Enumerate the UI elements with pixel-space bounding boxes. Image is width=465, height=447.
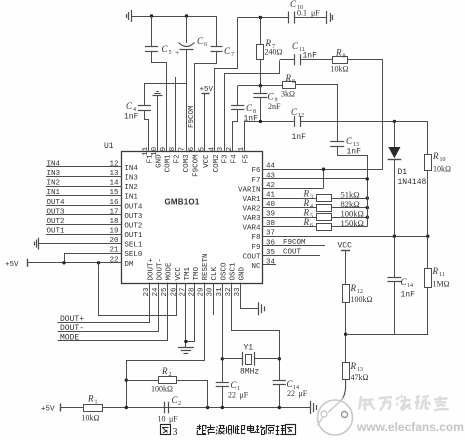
svg-text:F9: F9 bbox=[251, 244, 260, 252]
svg-text:VAR3: VAR3 bbox=[242, 215, 261, 223]
svg-text:2nF: 2nF bbox=[268, 102, 281, 111]
svg-text:OUT4: OUT4 bbox=[47, 199, 66, 207]
svg-text:F7: F7 bbox=[251, 177, 260, 185]
svg-text:+5V: +5V bbox=[5, 261, 19, 269]
svg-text:μF: μF bbox=[299, 389, 308, 398]
svg-text:+: + bbox=[175, 48, 179, 57]
svg-text:OSCO: OSCO bbox=[220, 262, 228, 281]
svg-text:R: R bbox=[432, 151, 439, 161]
svg-text:R: R bbox=[303, 208, 310, 218]
svg-text:C: C bbox=[346, 136, 353, 146]
svg-text:6: 6 bbox=[310, 223, 313, 229]
svg-text:5: 5 bbox=[310, 214, 313, 220]
svg-text:GND: GND bbox=[239, 266, 247, 280]
svg-text:OUT4: OUT4 bbox=[124, 203, 143, 211]
svg-text:F8: F8 bbox=[251, 234, 260, 242]
svg-text:+5V: +5V bbox=[41, 406, 55, 414]
svg-text:17: 17 bbox=[109, 208, 118, 216]
svg-text:34: 34 bbox=[266, 259, 276, 267]
svg-text:R: R bbox=[303, 189, 310, 199]
svg-text:R: R bbox=[161, 366, 168, 376]
svg-text:C: C bbox=[224, 46, 231, 56]
svg-text:OUT2: OUT2 bbox=[47, 218, 65, 226]
svg-text:51kΩ: 51kΩ bbox=[341, 190, 360, 200]
svg-text:82kΩ: 82kΩ bbox=[341, 199, 360, 209]
svg-text:COM2: COM2 bbox=[213, 154, 221, 172]
svg-text:F9COM: F9COM bbox=[193, 154, 201, 177]
svg-text:VAR2: VAR2 bbox=[242, 206, 260, 214]
svg-text:RESETN: RESETN bbox=[202, 253, 210, 280]
svg-text:VCC: VCC bbox=[203, 154, 211, 168]
svg-text:10kΩ: 10kΩ bbox=[82, 414, 100, 423]
svg-text:100kΩ: 100kΩ bbox=[151, 385, 173, 394]
svg-text:240Ω: 240Ω bbox=[265, 48, 283, 57]
svg-text:OUT3: OUT3 bbox=[47, 208, 66, 216]
svg-text:MODE: MODE bbox=[166, 262, 174, 281]
svg-text:GMB1O1: GMB1O1 bbox=[165, 198, 200, 207]
svg-text:5: 5 bbox=[169, 50, 172, 56]
svg-text:22: 22 bbox=[287, 389, 295, 398]
svg-text:C: C bbox=[292, 41, 299, 51]
svg-text:IN1: IN1 bbox=[124, 194, 138, 202]
svg-text:F5: F5 bbox=[243, 154, 251, 164]
svg-text:0.1: 0.1 bbox=[297, 9, 307, 18]
svg-text:27: 27 bbox=[179, 287, 187, 296]
svg-text:R: R bbox=[265, 38, 272, 48]
svg-text:SEL0: SEL0 bbox=[124, 251, 143, 259]
svg-text:47kΩ: 47kΩ bbox=[351, 373, 369, 382]
svg-text:5: 5 bbox=[199, 146, 207, 151]
svg-text:10kΩ: 10kΩ bbox=[331, 65, 349, 74]
svg-text:8MHz: 8MHz bbox=[240, 368, 259, 377]
svg-text:1nF: 1nF bbox=[401, 291, 416, 300]
svg-text:R: R bbox=[303, 217, 310, 227]
svg-text:43: 43 bbox=[266, 172, 276, 180]
svg-text:DOUT-: DOUT- bbox=[60, 324, 84, 333]
svg-text:IN3: IN3 bbox=[124, 175, 138, 183]
svg-text:2: 2 bbox=[169, 372, 172, 378]
svg-text:C: C bbox=[291, 107, 298, 117]
svg-text:4: 4 bbox=[310, 204, 313, 210]
svg-text:3: 3 bbox=[310, 195, 313, 201]
svg-text:MODE: MODE bbox=[60, 333, 79, 342]
svg-text:COUT: COUT bbox=[242, 254, 261, 262]
svg-text:OUT1: OUT1 bbox=[47, 228, 66, 236]
svg-text:1N4148: 1N4148 bbox=[398, 178, 427, 187]
svg-text:R: R bbox=[285, 73, 292, 83]
svg-text:1: 1 bbox=[95, 400, 98, 406]
svg-text:C: C bbox=[197, 36, 204, 46]
svg-text:IN4: IN4 bbox=[47, 161, 61, 169]
svg-text:DOUT-: DOUT- bbox=[157, 258, 165, 281]
svg-text:100kΩ: 100kΩ bbox=[351, 295, 373, 304]
svg-text:U1: U1 bbox=[104, 142, 114, 151]
svg-text:μF: μF bbox=[311, 9, 320, 18]
svg-text:9: 9 bbox=[343, 54, 346, 60]
svg-text:R: R bbox=[350, 361, 357, 371]
svg-text:VARIN: VARIN bbox=[238, 186, 261, 194]
svg-text:F6: F6 bbox=[251, 167, 261, 175]
svg-text:1nF: 1nF bbox=[292, 133, 307, 142]
svg-text:4: 4 bbox=[209, 146, 217, 151]
svg-text:μF: μF bbox=[169, 415, 178, 424]
svg-text:VAR4: VAR4 bbox=[242, 225, 261, 233]
svg-text:28: 28 bbox=[189, 287, 197, 296]
svg-text:COUT: COUT bbox=[283, 249, 302, 257]
svg-text:R: R bbox=[87, 394, 94, 404]
svg-text:OSC1: OSC1 bbox=[229, 262, 237, 281]
svg-text:1nF: 1nF bbox=[347, 148, 362, 157]
svg-text:2: 2 bbox=[178, 401, 181, 407]
svg-text:VAR1: VAR1 bbox=[242, 196, 261, 204]
svg-text:R: R bbox=[335, 48, 342, 58]
svg-text:DOUT+: DOUT+ bbox=[148, 257, 156, 280]
svg-text:VCC: VCC bbox=[175, 266, 183, 280]
svg-text:100kΩ: 100kΩ bbox=[341, 209, 364, 219]
svg-text:3: 3 bbox=[217, 146, 225, 151]
svg-text:36: 36 bbox=[266, 239, 276, 247]
svg-text:DOUT+: DOUT+ bbox=[60, 315, 84, 324]
svg-text:VCC: VCC bbox=[338, 242, 353, 251]
svg-text:10: 10 bbox=[440, 157, 446, 163]
svg-text:OUT2: OUT2 bbox=[124, 223, 142, 231]
svg-text:F3: F3 bbox=[222, 154, 230, 164]
svg-text:Y1: Y1 bbox=[244, 344, 254, 353]
svg-text:150kΩ: 150kΩ bbox=[341, 218, 364, 228]
svg-text:IN2: IN2 bbox=[124, 184, 138, 192]
svg-text:7: 7 bbox=[179, 147, 187, 152]
svg-text:CLK: CLK bbox=[211, 266, 219, 280]
svg-text:IN3: IN3 bbox=[47, 170, 61, 178]
svg-text:C: C bbox=[290, 0, 297, 9]
svg-text:C: C bbox=[268, 92, 275, 102]
svg-text:R: R bbox=[303, 198, 310, 208]
svg-text:μF: μF bbox=[240, 391, 249, 400]
svg-text:22: 22 bbox=[228, 391, 236, 400]
svg-text:26: 26 bbox=[170, 287, 178, 297]
svg-text:22: 22 bbox=[109, 256, 118, 264]
svg-text:OUT3: OUT3 bbox=[124, 213, 143, 221]
svg-text:COM1: COM1 bbox=[165, 154, 173, 173]
svg-text:3kΩ: 3kΩ bbox=[281, 90, 295, 99]
svg-text:SEL1: SEL1 bbox=[124, 242, 143, 250]
svg-text:7: 7 bbox=[231, 52, 234, 58]
svg-text:F4: F4 bbox=[231, 154, 239, 164]
svg-text:F2: F2 bbox=[174, 154, 182, 163]
svg-text:IN4: IN4 bbox=[124, 165, 138, 173]
svg-text:3: 3 bbox=[173, 427, 178, 438]
svg-text:6: 6 bbox=[204, 42, 207, 48]
svg-text:TMO: TMO bbox=[193, 266, 201, 280]
svg-text:12: 12 bbox=[109, 161, 118, 169]
svg-text:1nF: 1nF bbox=[244, 115, 259, 124]
svg-text:C: C bbox=[162, 44, 169, 54]
svg-text:8: 8 bbox=[292, 79, 295, 85]
svg-text:C: C bbox=[126, 101, 133, 111]
svg-text:DM: DM bbox=[124, 261, 134, 269]
svg-text:1MΩ: 1MΩ bbox=[433, 280, 450, 289]
svg-text:IN1: IN1 bbox=[47, 189, 61, 197]
svg-text:NC: NC bbox=[251, 263, 261, 271]
svg-text:OUT1: OUT1 bbox=[124, 232, 143, 240]
svg-text:www.elecfans.com: www.elecfans.com bbox=[356, 420, 464, 434]
svg-text:F9COM: F9COM bbox=[283, 239, 306, 247]
svg-text:COM3: COM3 bbox=[183, 154, 191, 173]
svg-text:14: 14 bbox=[407, 283, 413, 289]
svg-text:1nF: 1nF bbox=[124, 113, 139, 122]
svg-text:10: 10 bbox=[158, 415, 166, 424]
svg-text:D1: D1 bbox=[398, 168, 408, 177]
svg-text:R: R bbox=[350, 283, 357, 293]
svg-text:TM1: TM1 bbox=[184, 266, 192, 280]
svg-text:F9COM: F9COM bbox=[188, 105, 196, 128]
svg-text:C: C bbox=[246, 103, 253, 113]
svg-text:R: R bbox=[432, 266, 439, 276]
svg-text:IN2: IN2 bbox=[47, 180, 61, 188]
svg-text:10kΩ: 10kΩ bbox=[433, 165, 451, 174]
svg-text:11: 11 bbox=[439, 272, 445, 278]
